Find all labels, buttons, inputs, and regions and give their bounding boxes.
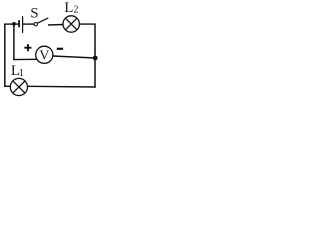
svg-text:V: V <box>39 48 49 63</box>
svg-text:S: S <box>30 6 38 22</box>
